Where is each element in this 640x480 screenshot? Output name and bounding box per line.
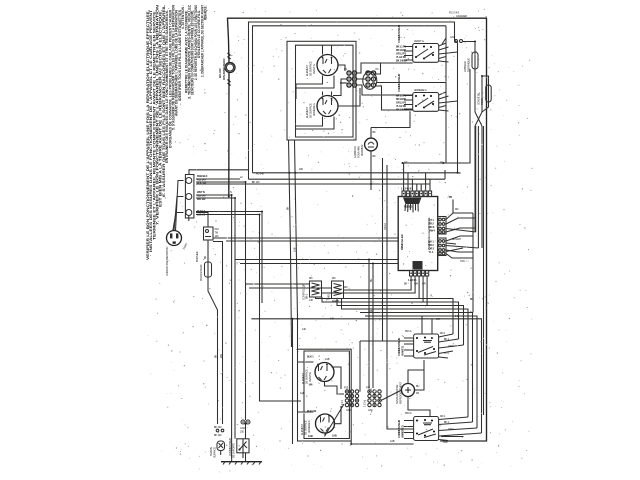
wire plug leads — [176, 181, 184, 231]
middle buses — [196, 69, 482, 462]
svg-text:PR2 A: PR2 A — [405, 411, 412, 415]
wire hook bus 4 — [342, 299, 469, 417]
wire element outputs — [333, 65, 360, 106]
fuse pill F2 — [472, 52, 478, 69]
svg-text:VENTILATEUR DE: VENTILATEUR DE — [395, 384, 399, 404]
svg-text:BK L1 P1: BK L1 P1 — [396, 94, 407, 98]
svg-text:WH: WH — [219, 354, 223, 358]
wire fuse down — [208, 277, 218, 424]
wire bus y163 — [403, 69, 471, 163]
wire board top stubs — [404, 163, 430, 191]
svg-text:WHT N: WHT N — [197, 190, 205, 194]
svg-text:DE LA PORTE: DE LA PORTE — [231, 443, 235, 458]
svg-text:COMMUTATEUR: COMMUTATEUR — [397, 338, 401, 356]
svg-text:BK: BK — [373, 154, 377, 158]
svg-text:RD 1: RD 1 — [440, 414, 446, 418]
svg-text:RD: RD — [309, 276, 313, 280]
svg-text:1 2 3 4: 1 2 3 4 — [340, 400, 344, 407]
wire bus y179 — [249, 170, 446, 179]
svg-text:BU: BU — [369, 278, 373, 282]
svg-text:OR 1A: OR 1A — [383, 223, 387, 230]
wire right bundle v2 v3 — [476, 126, 479, 248]
svg-text:ARRIERE D.: ARRIERE D. — [400, 425, 404, 438]
pin header top — [401, 187, 432, 197]
svg-text:BK 2: BK 2 — [444, 337, 450, 341]
svg-text:COMMUTATEUR: COMMUTATEUR — [397, 74, 401, 92]
svg-text:RD: RD — [332, 276, 336, 280]
svg-text:OR: OR — [422, 282, 426, 286]
thermal breaker P10 — [204, 227, 214, 240]
svg-text:TAN 4: TAN 4 — [429, 229, 436, 233]
fan motor — [381, 360, 430, 417]
wire top bus L3 — [253, 26, 447, 173]
svg-text:CAD: CAD — [240, 426, 245, 430]
svg-text:OR L2 P2: OR L2 P2 — [396, 52, 407, 56]
connector block CN5 — [340, 386, 359, 413]
svg-text:OR 3: OR 3 — [429, 247, 435, 251]
svg-text:1AB: 1AB — [292, 247, 296, 252]
connector CN1 — [340, 67, 357, 87]
svg-text:AVANT G.: AVANT G. — [312, 63, 316, 74]
svg-text:DISJONCTEUR: DISJONCTEUR — [222, 58, 226, 80]
svg-text:DE SURFACE: DE SURFACE — [304, 369, 308, 384]
svg-text:COMMUTATEUR: COMMUTATEUR — [397, 420, 401, 438]
svg-text:CONTROLEUR: CONTROLEUR — [302, 284, 306, 300]
wire sonde feed — [481, 76, 483, 112]
svg-text:BK L1 P1: BK L1 P1 — [396, 45, 407, 49]
wire hook bus 2 — [322, 297, 459, 339]
wire elements to connectors — [325, 367, 345, 394]
wire bus y259 — [235, 260, 398, 264]
terminal block TB — [185, 174, 207, 262]
oven lamp — [353, 111, 410, 190]
svg-text:T-MO: T-MO — [327, 294, 331, 300]
svg-text:RD 2: RD 2 — [429, 243, 435, 247]
wire bottom bus — [351, 441, 486, 444]
svg-text:BK 140 2A: BK 140 2A — [396, 108, 407, 112]
bottom left element box — [298, 349, 382, 441]
pin header bottom — [404, 261, 429, 286]
svg-text:PR1 A: PR1 A — [405, 329, 412, 333]
svg-text:ARRIERE G.: ARRIERE G. — [414, 88, 427, 92]
wire hook bus 6 — [365, 316, 477, 428]
svg-text:GY: GY — [404, 160, 408, 164]
svg-text:RGE BLK: RGE BLK — [197, 174, 208, 178]
svg-text:1 2 3 4 5 6 7: 1 2 3 4 5 6 7 — [401, 187, 414, 191]
svg-text:TAN: TAN — [460, 259, 465, 263]
wire bus y175 — [253, 172, 458, 174]
svg-text:CAF: CAF — [368, 408, 373, 412]
svg-text:DE SURFACE: DE SURFACE — [308, 103, 312, 118]
svg-text:DISJONCTEUR: DISJONCTEUR — [199, 264, 203, 281]
svg-text:P1 2 3 4 5: P1 2 3 4 5 — [449, 11, 460, 15]
svg-text:DE SURFACE: DE SURFACE — [308, 61, 312, 76]
svg-text:ELEMENT: ELEMENT — [300, 424, 304, 435]
svg-text:ELEMENT: ELEMENT — [305, 107, 309, 118]
svg-text:1AB: 1AB — [390, 439, 395, 443]
svg-text:YL 4: YL 4 — [444, 351, 449, 355]
svg-text:RD H1 R1: RD H1 R1 — [396, 97, 407, 101]
control board — [322, 163, 479, 306]
wire board bottom stubs — [322, 276, 428, 306]
terminal strip label — [403, 198, 422, 205]
wire element feed stubs — [298, 362, 314, 412]
svg-text:1B: 1B — [416, 391, 419, 395]
svg-text:BR 2: BR 2 — [429, 222, 435, 226]
svg-text:CA9: CA9 — [450, 35, 455, 39]
notes text block — [146, 4, 208, 260]
svg-text:RD: RD — [344, 285, 348, 289]
wire S3 S4 feeders — [360, 158, 414, 429]
svg-text:VERIFIER LE BON FONCTIONNEMENT: VERIFIER LE BON FONCTIONNEMENT DE L'APPA… — [146, 10, 150, 260]
svg-text:OR 3: OR 3 — [448, 344, 454, 348]
surface element LR — [317, 96, 338, 117]
svg-text:WH 140: WH 140 — [197, 197, 206, 201]
svg-text:ELEMENT: ELEMENT — [305, 65, 309, 76]
svg-text:ELEMENT: ELEMENT — [301, 373, 305, 384]
svg-text:FOUR 40W: FOUR 40W — [356, 145, 360, 158]
wire S3 top stubs — [422, 316, 432, 334]
svg-text:1AB: 1AB — [308, 434, 313, 438]
svg-text:CAVALIER: CAVALIER — [456, 14, 467, 18]
wire bus y284 — [246, 284, 332, 288]
wire switch feeds — [442, 26, 446, 163]
ground bus — [221, 461, 262, 463]
wire neutral run 1AB — [251, 319, 481, 433]
svg-text:OR L2 P2: OR L2 P2 — [396, 101, 407, 105]
svg-text:BK: BK — [286, 206, 290, 210]
wire cooktop feeders — [289, 140, 298, 347]
wire hook bus 1 — [316, 297, 454, 334]
resistor R2 ventilateur — [332, 281, 344, 299]
wire bottom box feeders — [293, 319, 298, 444]
svg-text:N1L1L2: N1L1L2 — [404, 205, 413, 209]
wire right bundle v1 — [472, 213, 474, 313]
fuse pill F3 — [486, 85, 492, 102]
wire bus y183 — [196, 183, 430, 185]
wire CN6 feeders — [369, 260, 373, 389]
svg-text:BK: BK — [203, 255, 207, 259]
svg-text:LAMPE DU: LAMPE DU — [353, 146, 357, 158]
infinite switch S1 — [396, 25, 458, 63]
svg-text:CORDON D'ALIMENTATION: CORDON D'ALIMENTATION — [165, 246, 169, 276]
svg-text:BK: BK — [404, 282, 408, 286]
bottom switch boxes — [351, 316, 486, 444]
svg-text:BR: BR — [470, 297, 474, 301]
svg-text:BK 140: BK 140 — [214, 425, 222, 429]
svg-text:BU: BU — [416, 384, 420, 388]
svg-text:BORNIER: BORNIER — [195, 251, 199, 262]
svg-text:FOUR: FOUR — [480, 98, 484, 105]
svg-text:YL H2 R2: YL H2 R2 — [396, 104, 406, 108]
svg-text:MAINT: MAINT — [332, 299, 340, 303]
door switch — [237, 439, 249, 453]
infinite switch S3 — [397, 316, 464, 358]
right column wires — [302, 126, 484, 415]
wire breaker down — [228, 72, 230, 196]
svg-text:LIMITEUR: LIMITEUR — [463, 61, 467, 72]
junction dots — [288, 172, 290, 174]
top switch boxes — [396, 11, 491, 249]
svg-text:ARRIERE G.: ARRIERE G. — [312, 103, 316, 116]
svg-text:1 2 3 4: 1 2 3 4 — [363, 400, 367, 407]
svg-text:AVANT G.: AVANT G. — [414, 39, 425, 43]
connector block CN6 — [363, 386, 382, 413]
svg-text:1AB: 1AB — [325, 357, 330, 361]
wire lamp chain labels — [216, 429, 219, 432]
wire CAD to switch — [245, 424, 247, 439]
svg-text:TM: TM — [215, 230, 218, 234]
wire bus y238 — [213, 238, 399, 424]
wire X crossover — [475, 69, 489, 126]
top surface element box — [287, 41, 446, 140]
wire top bus L2 — [249, 22, 458, 179]
svg-text:TEMOIN: TEMOIN — [209, 447, 213, 456]
svg-text:OR 3: OR 3 — [448, 427, 454, 431]
svg-text:BK: BK — [373, 130, 377, 134]
connector fan CN3 — [429, 195, 476, 234]
svg-text:SURFACE: SURFACE — [212, 447, 216, 458]
svg-text:MAXIMUM: MAXIMUM — [360, 145, 364, 156]
svg-text:M/MO ELEC: M/MO ELEC — [400, 233, 404, 250]
svg-text:BLK 140: BLK 140 — [307, 409, 317, 413]
svg-text:AVANT D.: AVANT D. — [308, 372, 312, 382]
svg-text:SONDE DU: SONDE DU — [477, 93, 481, 105]
svg-text:1AB: 1AB — [332, 434, 337, 438]
svg-text:BK/WHT: BK/WHT — [452, 237, 462, 241]
connector fan CN4 — [429, 236, 479, 263]
connector CAD — [241, 420, 245, 424]
svg-text:OR: OR — [436, 317, 440, 321]
svg-text:YL H2 R2: YL H2 R2 — [396, 55, 406, 59]
svg-text:YL 4: YL 4 — [429, 250, 434, 254]
fuse chain — [189, 213, 219, 425]
svg-text:REFROIDISSEMENT: REFROIDISSEMENT — [398, 381, 402, 404]
svg-text:RD H1 R1: RD H1 R1 — [396, 48, 407, 52]
svg-text:1AB: 1AB — [368, 309, 373, 313]
wire lamp leads — [370, 128, 372, 139]
connector dots top right — [455, 40, 458, 43]
wire terminal leads — [196, 179, 246, 420]
wire element internals — [296, 76, 334, 89]
power plug — [165, 181, 189, 277]
svg-text:1 2 3 4 5: 1 2 3 4 5 — [408, 278, 417, 282]
surface element RF — [315, 363, 334, 382]
svg-text:RD 140: RD 140 — [256, 172, 264, 176]
svg-text:BK 140: BK 140 — [214, 433, 222, 437]
surface element RR — [316, 414, 335, 433]
svg-text:BK 2: BK 2 — [444, 420, 450, 424]
wire P10 to fuse — [207, 240, 209, 262]
svg-text:BK 140: BK 140 — [252, 180, 260, 184]
infinite switch S4 — [397, 411, 482, 444]
wire top bus L1 — [228, 18, 487, 441]
svg-text:BK-RD: BK-RD — [218, 68, 222, 78]
svg-text:VIO 3: VIO 3 — [429, 225, 435, 229]
svg-text:RD: RD — [455, 207, 459, 211]
svg-text:WH: WH — [299, 167, 303, 171]
circuit breaker lamp B1 — [189, 53, 249, 197]
fuse F1 — [205, 262, 212, 277]
svg-text:BK 140 2A: BK 140 2A — [396, 59, 407, 63]
svg-text:BK: BK — [214, 354, 218, 358]
wire right bundle v4 — [483, 126, 485, 415]
svg-text:BK 1: BK 1 — [429, 240, 435, 244]
infinite switch S2 — [396, 74, 458, 112]
bottom left chains and ground — [209, 420, 262, 465]
indicator lamp TEMOIN — [217, 441, 225, 451]
wire hook bus 3 — [337, 299, 464, 345]
svg-text:AVANT D.: AVANT D. — [400, 345, 404, 356]
svg-text:BK: BK — [458, 171, 462, 175]
connector CN2 — [363, 67, 379, 89]
svg-text:COMMUTATEUR: COMMUTATEUR — [397, 25, 401, 43]
svg-text:BLK 1: BLK 1 — [307, 355, 314, 359]
resistor R1 controleur — [310, 281, 322, 297]
svg-text:ARRIERE D.: ARRIERE D. — [307, 420, 311, 433]
svg-text:CAE: CAE — [346, 408, 351, 412]
wire hook bus 5 — [360, 313, 473, 423]
svg-text:RD 1: RD 1 — [440, 331, 446, 335]
wire fan leads — [381, 360, 424, 401]
wire block top run — [189, 170, 249, 175]
svg-text:DE SURFACE: DE SURFACE — [303, 420, 307, 435]
surface element LF — [317, 55, 338, 76]
wire block to P10 — [188, 216, 190, 222]
svg-text:COMMUTATEUR: COMMUTATEUR — [228, 438, 232, 456]
